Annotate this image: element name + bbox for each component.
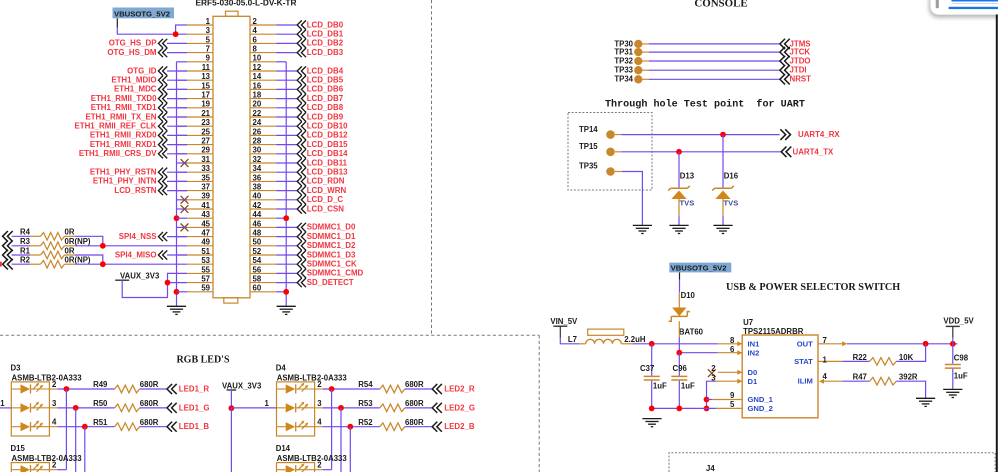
wire LED D4 pin 3 to resistor [323, 407, 380, 409]
svg-text:VDD_5V: VDD_5V [943, 317, 974, 326]
svg-text:J4: J4 [706, 464, 715, 472]
diode D16 TVS symbol [712, 186, 734, 191]
net LCD_RSTN off-page chevron [158, 186, 167, 195]
net chevron left edge row R2 [3, 259, 13, 270]
connector pin 41 stub and number [187, 208, 213, 210]
no-connect X on pin 41 [181, 205, 189, 213]
net LED2_R chevron [432, 384, 442, 394]
no-connect X on U7 pin 2 D0 [708, 369, 716, 377]
net JTDO chevron [780, 56, 790, 66]
svg-text:38: 38 [253, 183, 262, 192]
LED D3 internal diode row pin 4 [11, 426, 20, 428]
svg-text:4: 4 [823, 372, 828, 381]
net LCD_DB11 wire from pin 32 [276, 162, 297, 164]
svg-text:ASMB-LTB2-0A333: ASMB-LTB2-0A333 [12, 454, 83, 463]
net ETH1_RMII_RXD1 off-page chevron [158, 140, 167, 149]
resistor R51 zigzag [115, 423, 140, 431]
wire TP31 to JTCK [642, 51, 649, 53]
svg-text:13: 13 [201, 72, 210, 81]
net LCD_DB11 off-page chevron [297, 158, 306, 167]
svg-text:15: 15 [201, 81, 210, 90]
wire resistor R54 to chevron [405, 388, 432, 390]
connector pin 42 stub and number [250, 208, 276, 210]
svg-text:ETH1_RMII_RXD1: ETH1_RMII_RXD1 [90, 140, 157, 149]
resistor R49 zigzag [115, 385, 140, 393]
svg-text:R22: R22 [853, 353, 868, 362]
svg-text:34: 34 [253, 164, 262, 173]
net JTMS chevron [780, 39, 790, 49]
svg-text:ETH1_PHY_INTN: ETH1_PHY_INTN [93, 177, 157, 186]
resistor R2 zigzag [30, 263, 41, 265]
wire VDD_5V down to OUT net [952, 326, 954, 337]
svg-text:6: 6 [730, 345, 735, 354]
svg-text:2: 2 [317, 380, 322, 389]
svg-text:ETH1_MDIO: ETH1_MDIO [111, 76, 156, 85]
wire TP32 to JTDO [642, 60, 649, 62]
svg-text:NRST: NRST [790, 75, 812, 84]
capacitor C98 [952, 344, 954, 364]
connector pin 2 stub and number [250, 24, 276, 26]
test point TP34 pad [634, 75, 642, 83]
net LED1_G chevron [167, 403, 177, 413]
net LCD_DB0 off-page chevron [297, 20, 306, 29]
net ETH1_RMII_CRS_DV wire to pin 29 [167, 153, 187, 155]
wire VAUX_3V3 to pins 55/57 [122, 273, 187, 297]
connector pin 38 stub and number [250, 190, 276, 192]
svg-text:3: 3 [52, 399, 57, 408]
svg-text:56: 56 [253, 265, 262, 274]
net ETH1_MDC wire to pin 15 [167, 88, 187, 90]
net ETH1_RMII_TXD1 wire to pin 19 [167, 107, 187, 109]
LED D15 internal diode row pin 2 [11, 469, 20, 471]
svg-text:D10: D10 [681, 291, 696, 300]
net LCD_DB12 off-page chevron [297, 131, 306, 140]
test point TP35 pad [606, 167, 615, 176]
wire pin 9 to left bus [177, 61, 188, 63]
wire vertical D3 pin4 down [84, 427, 86, 472]
net LCD_RSTN wire to pin 37 [167, 190, 187, 192]
net SDMMC1_CMD wire from pin 56 [276, 272, 297, 274]
U7 pin 4 lead ILIM [819, 379, 824, 384]
svg-text:LCD_CSN: LCD_CSN [307, 204, 345, 213]
net ETH1_MDIO off-page chevron [158, 76, 167, 85]
net LCD_DB7 wire from pin 18 [276, 98, 297, 100]
svg-text:6: 6 [253, 35, 258, 44]
svg-text:24: 24 [253, 118, 262, 127]
connector pin 29 stub and number [187, 153, 213, 155]
svg-text:11: 11 [202, 63, 211, 72]
junction R4/R3 [100, 243, 106, 249]
svg-text:TP33: TP33 [614, 66, 633, 75]
svg-text:1uF: 1uF [681, 382, 695, 391]
wire VAUX_3V3 down to D4 pin 1 row [230, 390, 232, 408]
connector pin 17 stub and number [187, 98, 213, 100]
net chevron left edge row R4 [3, 231, 13, 242]
svg-text:GND_2: GND_2 [748, 404, 773, 413]
svg-text:D13: D13 [680, 171, 695, 180]
wire VBUSOTG_5V2 up to pin 1 [176, 25, 187, 34]
svg-text:ETH1_RMII_TX_EN: ETH1_RMII_TX_EN [85, 112, 156, 121]
junction on right bus at pin 44 [283, 215, 289, 221]
net LCD_CSN wire from pin 42 [276, 208, 297, 210]
junction pin1/pin3 VBUSOTG_5V2 [173, 31, 179, 37]
connector pin 52 stub and number [250, 254, 276, 256]
net OTG_ID off-page chevron [158, 66, 167, 75]
resistor R47 zigzag [870, 377, 897, 385]
net ETH1_MDC off-page chevron [158, 85, 167, 94]
net ETH1_PHY_RSTN off-page chevron [158, 168, 167, 177]
net ETH1_RMII_RXD0 off-page chevron [158, 131, 167, 140]
svg-text:R1: R1 [20, 246, 31, 255]
svg-text:8: 8 [730, 336, 735, 345]
wire LED D4 pin 2 to resistor [323, 388, 380, 390]
U7 pin 3 lead D1 [716, 380, 742, 382]
svg-text:VIN_5V: VIN_5V [550, 317, 578, 326]
net SPI4_MISO wire to pin 51 [167, 254, 187, 256]
net UART4_TX chevron [781, 147, 791, 158]
wire left of resistor R1 [12, 254, 30, 256]
power VAUX_3V3 bar symbol [115, 279, 129, 281]
wire D1 to GND rail [707, 381, 716, 408]
svg-text:TP32: TP32 [614, 56, 633, 65]
connector pin 3 stub and number [187, 33, 213, 35]
net SPI4_MISO off-page chevron [158, 250, 167, 259]
connector pin 6 stub and number [250, 42, 276, 44]
junction LED D3 pin 4 [82, 424, 88, 430]
svg-text:53: 53 [201, 256, 210, 265]
net OTG_HS_DM wire to pin 7 [167, 52, 187, 54]
net ETH1_RMII_TX_EN wire to pin 21 [167, 116, 187, 118]
net SDMMC1_D2 off-page chevron [297, 241, 306, 250]
svg-text:2: 2 [52, 461, 57, 470]
wire D3 pin 1 from left edge [0, 407, 11, 409]
net ETH1_RMII_TX_EN off-page chevron [158, 112, 167, 121]
svg-text:7: 7 [823, 336, 827, 345]
net ETH1_RMII_REF_CLK wire to pin 23 [167, 125, 187, 127]
net OTG_ID wire to pin 11 [167, 70, 187, 72]
svg-text:36: 36 [253, 173, 262, 182]
svg-text:LCD_D_C: LCD_D_C [307, 195, 344, 204]
UI popup faint line [953, 3, 998, 4]
svg-text:ASMB-LTB2-0A333: ASMB-LTB2-0A333 [12, 373, 83, 382]
connector J1 top notch [226, 11, 239, 16]
wire LED D3 pin 3 to resistor [57, 407, 114, 409]
connector pin 24 stub and number [250, 125, 276, 127]
ground symbol below right bus [277, 306, 296, 314]
U7 pin 8 lead IN1 [718, 343, 742, 345]
svg-text:3: 3 [206, 26, 211, 35]
net ETH1_RMII_TXD0 wire to pin 17 [167, 98, 187, 100]
connector pin 43 stub and number [187, 217, 213, 219]
wire LED D4 pin 4 to resistor [323, 426, 380, 428]
connector pin 30 stub and number [250, 153, 276, 155]
svg-text:LED1_G: LED1_G [179, 403, 210, 412]
net LCD_DB4 wire from pin 12 [276, 70, 297, 72]
connector pin 4 stub and number [250, 33, 276, 35]
no-connect X on pin 45 [181, 224, 189, 232]
connector pin 56 stub and number [250, 272, 276, 274]
LED D4 pin 2 lead [315, 388, 323, 390]
svg-text:32: 32 [253, 155, 262, 164]
svg-text:LCD_DB13: LCD_DB13 [307, 168, 348, 177]
ground symbol below left bus [167, 306, 186, 314]
wire left of resistor R2 [12, 263, 30, 265]
svg-text:23: 23 [201, 118, 210, 127]
svg-text:OTG_ID: OTG_ID [127, 66, 157, 75]
svg-text:54: 54 [253, 256, 262, 265]
net SPI4_NSS off-page chevron [158, 232, 167, 241]
wire left of resistor R3 [12, 245, 30, 247]
svg-text:2.2uH: 2.2uH [624, 335, 646, 344]
svg-text:20: 20 [253, 100, 262, 109]
wire R3 to connector [75, 245, 187, 247]
svg-text:TVS: TVS [724, 199, 739, 208]
svg-text:D14: D14 [276, 444, 291, 453]
svg-text:680R: 680R [140, 380, 159, 389]
svg-text:Through hole Test point for U: Through hole Test point for UART [605, 98, 805, 110]
svg-text:21: 21 [201, 109, 210, 118]
LED D3 internal diode row pin 2 [11, 388, 20, 390]
net LCD_D_C off-page chevron [297, 195, 306, 204]
diode D13 anode lead [678, 199, 680, 217]
junction LED D4 pin 3 [338, 405, 344, 411]
net ETH1_PHY_RSTN wire to pin 33 [167, 171, 187, 173]
connector pin 44 stub and number [250, 217, 276, 219]
wire STAT to R22 [842, 360, 869, 362]
junction D1/GND_1 [704, 397, 710, 403]
wire vertical VAUX_3V3 down to D14 pin 1 [230, 408, 232, 472]
svg-text:ETH1_RMII_CRS_DV: ETH1_RMII_CRS_DV [79, 149, 157, 158]
LED D4 pin 3 lead [315, 407, 323, 409]
svg-text:ETH1_PHY_RSTN: ETH1_PHY_RSTN [90, 168, 157, 177]
junction OUT/C98/VDD [950, 341, 956, 347]
net LCD_D_C wire from pin 40 [276, 199, 297, 201]
dashed separator horizontal left [0, 334, 539, 336]
connector pin 35 stub and number [187, 180, 213, 182]
svg-text:4: 4 [52, 418, 57, 427]
junction OUT/R22 [923, 341, 929, 347]
connector pin 28 stub and number [250, 144, 276, 146]
connector pin 1 stub and number [187, 24, 213, 26]
wire GND rail [652, 407, 716, 409]
svg-text:42: 42 [253, 201, 262, 210]
svg-text:RGB LED'S: RGB LED'S [176, 354, 230, 365]
svg-text:2: 2 [711, 364, 716, 373]
svg-text:VBUSOTG_5V2: VBUSOTG_5V2 [671, 264, 727, 273]
capacitor C96 [678, 353, 680, 376]
net SDMMC1_D2 wire from pin 50 [276, 245, 297, 247]
svg-text:SDMMC1_CMD: SDMMC1_CMD [307, 269, 364, 278]
net ETH1_RMII_RXD0 wire to pin 25 [167, 134, 187, 136]
net OTG_HS_DP wire to pin 5 [167, 42, 187, 44]
wire R4 corner down to next row [75, 236, 103, 246]
svg-text:17: 17 [201, 91, 210, 100]
svg-text:OTG_HS_DM: OTG_HS_DM [107, 48, 157, 57]
U7 pin 5 lead GND_2 [716, 407, 742, 409]
junction C96/IN2 [676, 350, 682, 356]
wire IN2 from D10 [679, 352, 718, 354]
diode D16 wire from signal [722, 135, 724, 188]
net ETH1_RMII_TXD1 off-page chevron [158, 103, 167, 112]
net VBUSOTG_5V2 label (highlighted) power section [669, 263, 731, 273]
net NRST chevron [780, 74, 790, 84]
test point TP33 pad [634, 66, 642, 74]
svg-text:4: 4 [253, 26, 258, 35]
LED D4 pin 4 lead [315, 426, 323, 428]
svg-text:LCD_DB5: LCD_DB5 [307, 76, 344, 85]
svg-text:26: 26 [253, 127, 262, 136]
resistor R50 zigzag [115, 404, 140, 412]
wire vertical D4 pin2 to D14 pin2 [331, 389, 333, 470]
svg-text:45: 45 [201, 219, 210, 228]
svg-text:R47: R47 [853, 373, 867, 382]
net SD_DETECT wire from pin 58 [276, 282, 297, 284]
svg-text:29: 29 [201, 146, 210, 155]
svg-text:LCD_DB4: LCD_DB4 [307, 66, 344, 75]
net SDMMC1_D1 wire from pin 48 [276, 236, 297, 238]
U7 pin 6 lead IN2 [718, 352, 742, 354]
svg-text:ETH1_RMII_REF_CLK: ETH1_RMII_REF_CLK [75, 122, 157, 131]
net LED2_G chevron [432, 403, 442, 413]
connector pin 50 stub and number [250, 245, 276, 247]
net LED1_R chevron [167, 384, 177, 394]
svg-text:59: 59 [201, 284, 210, 293]
svg-text:0R: 0R [65, 228, 75, 237]
svg-text:D4: D4 [276, 363, 287, 372]
wire L7 to IN1 [633, 343, 718, 345]
net LCD_DB13 wire from pin 34 [276, 171, 297, 173]
resistor R54 zigzag [380, 385, 405, 393]
svg-text:392R: 392R [899, 373, 918, 382]
svg-text:58: 58 [253, 275, 262, 284]
svg-text:OTG_HS_DP: OTG_HS_DP [109, 39, 157, 48]
svg-text:ERF5-030-05.0-L-DV-K-TR: ERF5-030-05.0-L-DV-K-TR [196, 0, 297, 7]
net SDMMC1_D3 off-page chevron [297, 250, 306, 259]
svg-text:LCD_DB14: LCD_DB14 [307, 149, 348, 158]
junction VAUX_3V3 at pin 57 [165, 280, 171, 286]
test point TP31 pad [634, 48, 642, 56]
connector pin 34 stub and number [250, 171, 276, 173]
net LCD_DB8 off-page chevron [297, 103, 306, 112]
svg-text:39: 39 [201, 192, 210, 201]
svg-text:9: 9 [730, 391, 735, 400]
net LCD_DB5 off-page chevron [297, 76, 306, 85]
junction LED D3 pin 3 [73, 405, 79, 411]
dashed box around UART test points [568, 113, 652, 191]
capacitor C37 [651, 344, 653, 376]
wire vertical D3 pin2 to D15 pin2 [65, 389, 67, 470]
connector pin 60 stub and number [250, 291, 276, 293]
LED D15 pin 2 wire to vertical [57, 469, 66, 471]
UI popup grey handle [936, 0, 939, 8]
wire resistor R51 to chevron [140, 426, 167, 428]
svg-text:LCD_DB7: LCD_DB7 [307, 94, 344, 103]
svg-text:7: 7 [206, 45, 210, 54]
svg-text:STAT: STAT [794, 357, 813, 366]
svg-text:LCD_DB15: LCD_DB15 [307, 140, 348, 149]
junction on left bus at pin 43 [174, 215, 180, 221]
junction D1/GND_2 [704, 406, 710, 412]
svg-text:10: 10 [253, 54, 262, 63]
net LCD_DB7 off-page chevron [297, 94, 306, 103]
svg-text:GND_1: GND_1 [748, 395, 774, 404]
ground symbol below C98 [943, 389, 962, 397]
svg-text:IN2: IN2 [748, 348, 760, 357]
dashed separator vertical right of RGB section [538, 335, 540, 472]
net LCD_DB5 wire from pin 14 [276, 79, 297, 81]
svg-text:R50: R50 [93, 399, 108, 408]
svg-text:10K: 10K [899, 353, 914, 362]
svg-text:LCD_DB11: LCD_DB11 [307, 158, 348, 167]
connector pin 37 stub and number [187, 190, 213, 192]
connector pin 46 stub and number [250, 226, 276, 228]
connector pin 53 stub and number [187, 263, 213, 265]
net JTDI chevron [780, 65, 790, 75]
power VAUX_3V3 bar RGB section [227, 389, 237, 391]
net LCD_DB9 wire from pin 22 [276, 116, 297, 118]
LED D3 pin 2 lead [49, 388, 57, 390]
net LED2_B chevron [432, 422, 442, 432]
inductor L7 coils [586, 339, 622, 343]
junction LED D3 pin 2 [64, 386, 70, 392]
svg-text:4: 4 [317, 418, 322, 427]
svg-text:40: 40 [253, 192, 262, 201]
net LCD_DB3 wire from pin 8 [276, 52, 297, 54]
svg-text:16: 16 [253, 81, 262, 90]
LED D3 pin 3 lead [49, 407, 57, 409]
svg-text:R2: R2 [20, 256, 31, 265]
net LCD_DB10 wire from pin 24 [276, 125, 297, 127]
wire R22 up to OUT [896, 344, 925, 362]
junction R1/R2 [100, 261, 106, 267]
net SPI4_NSS wire to pin 47 [167, 236, 187, 238]
ground symbol below GND rail [642, 419, 661, 427]
svg-text:TP14: TP14 [579, 125, 598, 134]
svg-text:ETH1_MDC: ETH1_MDC [114, 85, 157, 94]
connector pin 18 stub and number [250, 98, 276, 100]
wire TP33 to JTDI [642, 69, 649, 71]
svg-text:C98: C98 [954, 353, 969, 362]
connector pin 23 stub and number [187, 125, 213, 127]
ground symbol below D13 [669, 225, 688, 233]
svg-text:LED1_R: LED1_R [179, 385, 210, 394]
svg-text:33: 33 [201, 164, 210, 173]
wire VBUSOTG_5V2 stem [679, 272, 681, 279]
net LCD_DB15 wire from pin 28 [276, 144, 297, 146]
svg-text:R52: R52 [358, 418, 373, 427]
svg-text:30: 30 [253, 146, 262, 155]
svg-text:SDMMC1_D1: SDMMC1_D1 [307, 232, 356, 241]
resistor R3 zigzag [30, 245, 41, 247]
svg-text:ASMB-LTB2-0A333: ASMB-LTB2-0A333 [277, 454, 348, 463]
wire resistor R50 to chevron [140, 407, 167, 409]
wire resistor R53 to chevron [405, 407, 432, 409]
junction UART4_RX / D16 [720, 132, 726, 138]
svg-text:LCD_DB10: LCD_DB10 [307, 122, 348, 131]
svg-text:SPI4_NSS: SPI4_NSS [119, 232, 157, 241]
wire pin 10 to right bus [276, 61, 286, 63]
wire TP15 to UART4_TX [615, 151, 622, 153]
wire R1 corner down to next row [75, 255, 103, 265]
connector pin 54 stub and number [250, 263, 276, 265]
svg-text:LCD_DB1: LCD_DB1 [307, 30, 344, 39]
no-connect X on pin 39 [181, 196, 189, 204]
svg-text:22: 22 [253, 109, 262, 118]
net ETH1_RMII_RXD1 wire to pin 27 [167, 144, 187, 146]
svg-text:0R(NP): 0R(NP) [65, 237, 91, 246]
resistor R22 zigzag [870, 358, 897, 366]
svg-text:25: 25 [201, 127, 210, 136]
